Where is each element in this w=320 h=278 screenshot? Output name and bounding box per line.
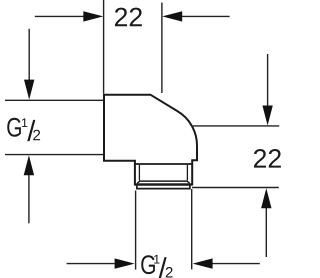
label G1/2 left — [7, 118, 40, 141]
extension line right of top dimension (outlet centerline) — [161, 3, 163, 94]
left port lower extension line — [5, 154, 103, 156]
label 22 top — [115, 8, 142, 27]
thread shoulder line — [135, 163, 192, 165]
left port upper extension line — [5, 99, 103, 101]
bottom dimension left extension line — [135, 191, 137, 270]
label 22 right — [254, 149, 281, 168]
top dimension line left arrow — [35, 11, 104, 21]
right dimension lower extension line (thread end) — [192, 187, 279, 189]
top dimension line right arrow — [162, 11, 229, 21]
bottom dimension right arrow — [193, 258, 260, 268]
right dimension down arrow — [262, 54, 272, 126]
label G1/2 bottom — [141, 255, 172, 278]
left dimension down arrow — [24, 29, 34, 100]
bottom dimension right extension line — [191, 189, 193, 269]
thread end collar — [137, 186, 190, 189]
right dimension upper extension line (port centerline) — [193, 125, 279, 127]
thread root bottom line — [137, 181, 189, 183]
thread root left vertical — [138, 165, 140, 181]
thread bottom edge — [135, 183, 193, 185]
extension line left of top dimension — [103, 0, 105, 94]
thread root right vertical — [186, 165, 188, 181]
body outline of elbow — [104, 95, 197, 185]
left dimension up arrow — [24, 155, 34, 223]
right dimension up arrow — [261, 188, 271, 257]
bottom dimension left arrow — [67, 258, 135, 268]
